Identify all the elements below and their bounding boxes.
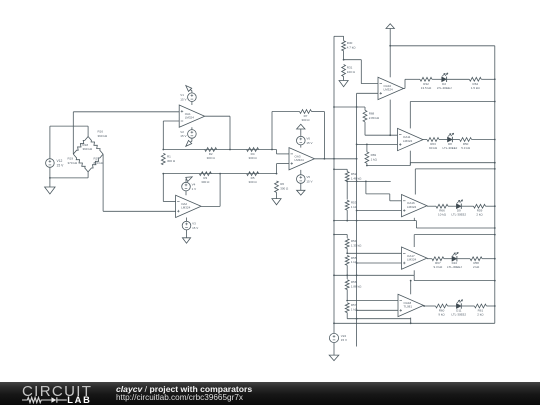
svg-text:1 kΩ: 1 kΩ [351,205,358,209]
svg-text:300 Ω: 300 Ω [249,180,258,184]
svg-text:300 Ω: 300 Ω [280,187,289,191]
svg-text:9 kΩ: 9 kΩ [438,313,445,317]
svg-text:300 Ω: 300 Ω [207,156,216,160]
svg-text:300 Ω: 300 Ω [249,156,258,160]
svg-text:15 V: 15 V [180,134,186,138]
svg-text:15 V: 15 V [306,179,312,183]
svg-text:820 kΩ: 820 kΩ [94,161,104,165]
svg-text:LTL-30EEJ: LTL-30EEJ [451,313,466,317]
svg-text:LM324: LM324 [407,257,417,261]
svg-text:15 V: 15 V [180,98,186,102]
svg-text:1 kΩ: 1 kΩ [371,157,378,161]
svg-text:LM324: LM324 [407,205,417,209]
svg-text:10 kΩ: 10 kΩ [438,213,447,217]
svg-text:90 kΩ: 90 kΩ [429,146,438,150]
svg-text:1 V: 1 V [192,187,197,191]
svg-text:100 Ω: 100 Ω [347,70,356,74]
svg-text:LTL-30EEJ: LTL-30EEJ [451,213,466,217]
svg-text:300 Ω: 300 Ω [301,118,310,122]
svg-text:LM324: LM324 [295,158,305,162]
svg-text:1.88 kΩ: 1.88 kΩ [351,284,362,288]
svg-text:2 kΩ: 2 kΩ [476,213,483,217]
svg-text:LM324: LM324 [384,88,394,92]
svg-text:15 V: 15 V [57,163,65,167]
svg-text:390 kΩ: 390 kΩ [83,147,93,151]
svg-text:1.5 kΩ: 1.5 kΩ [471,86,481,90]
svg-text:LM324: LM324 [181,206,191,210]
svg-text:1 kΩ: 1 kΩ [351,308,358,312]
svg-text:9.3 kΩ: 9.3 kΩ [434,265,444,269]
svg-text:15 V: 15 V [306,141,312,145]
svg-text:5.3 kΩ: 5.3 kΩ [461,146,471,150]
svg-text:1.48 kΩ: 1.48 kΩ [351,176,362,180]
svg-text:LM324: LM324 [403,139,413,143]
svg-text:15 V: 15 V [341,338,347,342]
svg-text:LTL-30EEJ: LTL-30EEJ [447,265,462,269]
svg-text:1.35 kΩ: 1.35 kΩ [351,243,362,247]
svg-text:390 kΩ: 390 kΩ [98,134,108,138]
svg-text:2 kΩ: 2 kΩ [477,313,484,317]
svg-text:13.5 kΩ: 13.5 kΩ [421,86,432,90]
svg-text:2 kΩ: 2 kΩ [473,265,480,269]
svg-text:300 Ω: 300 Ω [167,159,176,163]
svg-text:LTL-30EEJ: LTL-30EEJ [443,146,458,150]
svg-text:15 V: 15 V [192,226,198,230]
svg-text:370 kΩ: 370 kΩ [68,161,78,165]
svg-text:2.89 kΩ: 2.89 kΩ [369,116,380,120]
svg-text:LTL-30EEJ: LTL-30EEJ [437,86,452,90]
svg-text:TL081: TL081 [404,305,413,309]
svg-text:4.7 kΩ: 4.7 kΩ [347,45,357,49]
svg-text:LM324: LM324 [185,115,195,119]
svg-text:300 Ω: 300 Ω [201,180,210,184]
svg-text:1 kΩ: 1 kΩ [351,260,358,264]
